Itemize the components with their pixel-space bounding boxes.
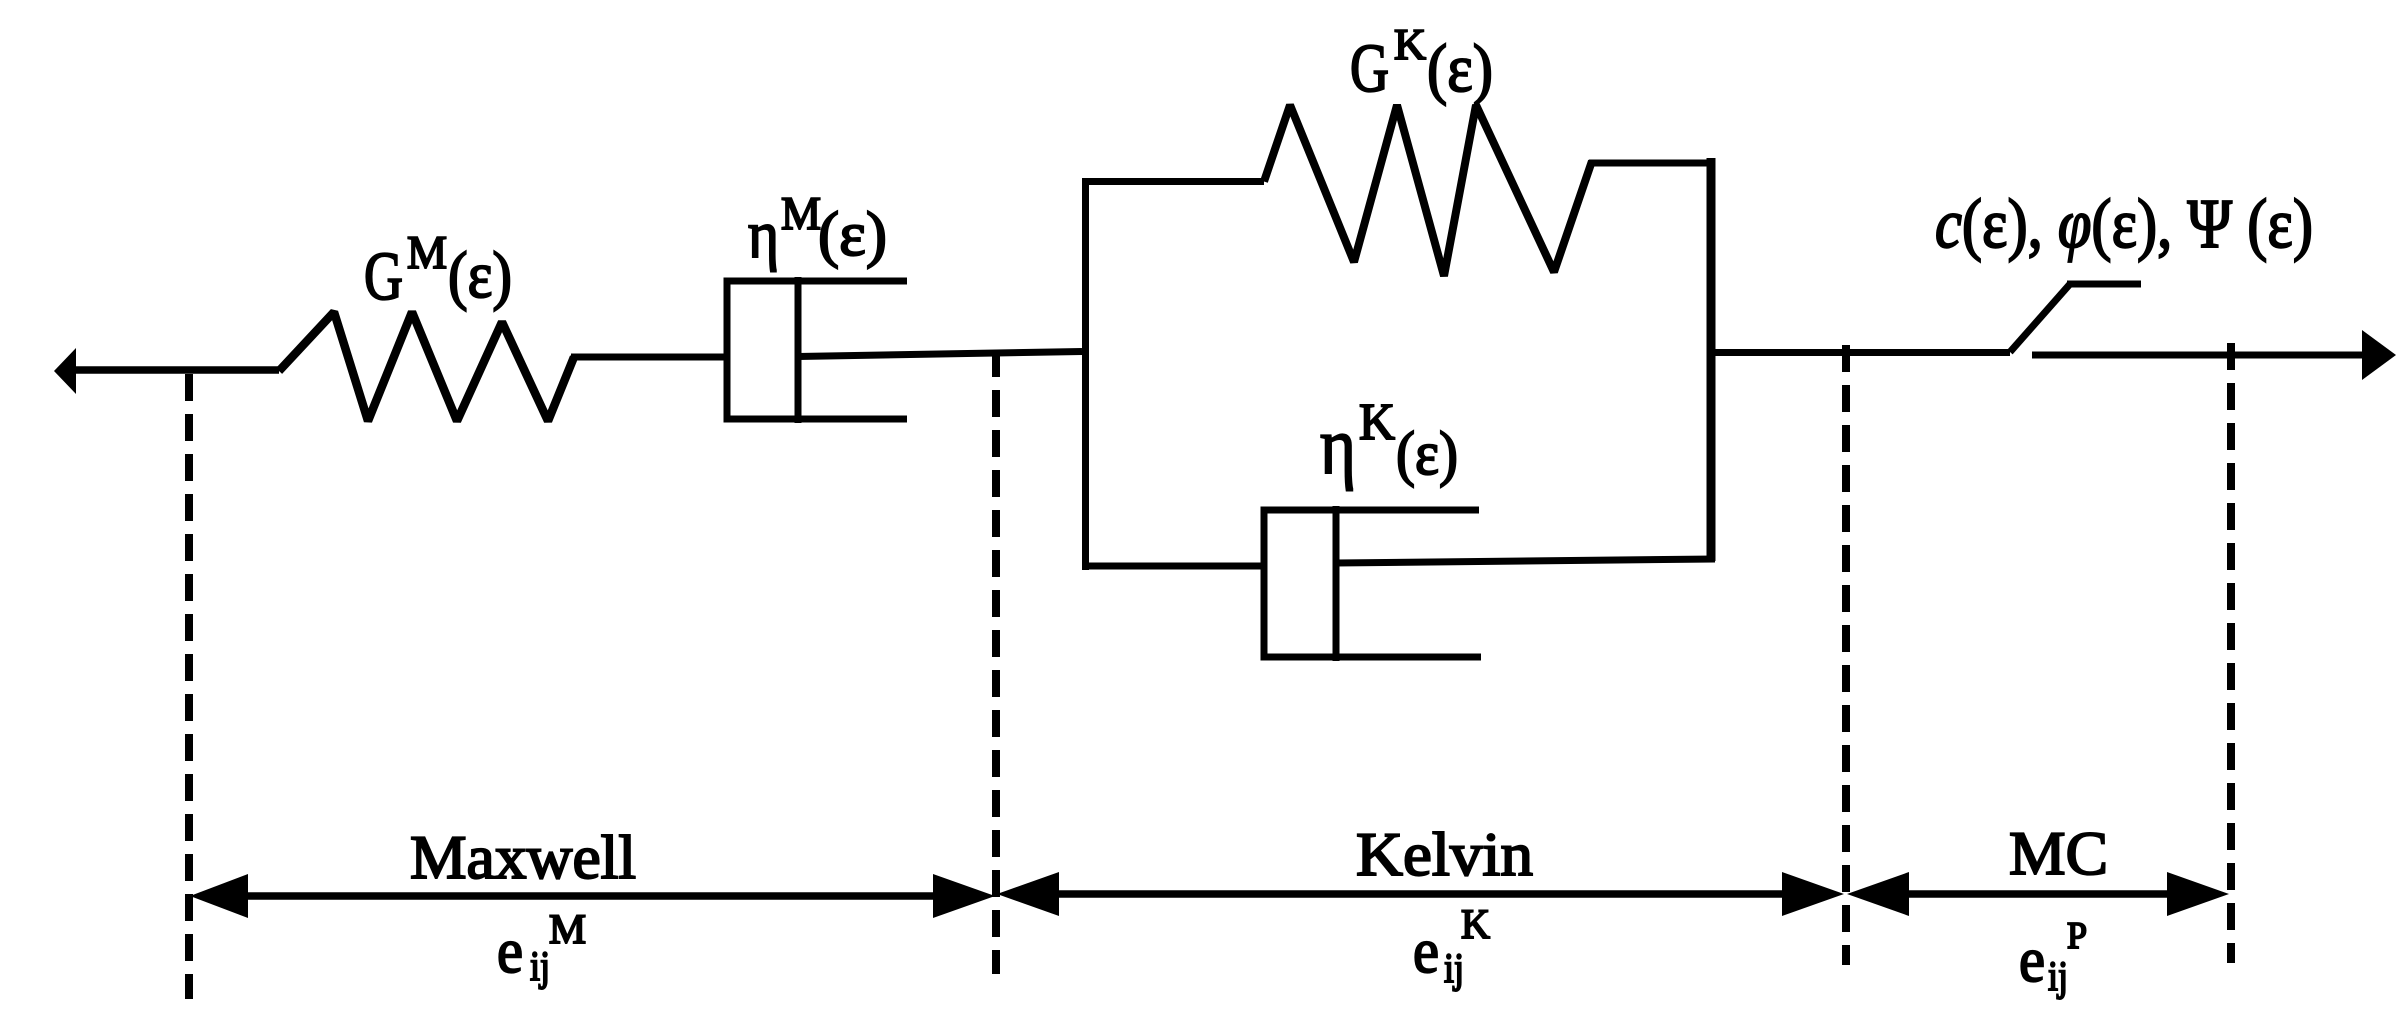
svg-text:e: e	[497, 915, 523, 986]
svg-text:M: M	[549, 907, 586, 953]
svg-text:e: e	[1413, 915, 1439, 986]
svg-text:η: η	[748, 196, 779, 272]
svg-text:Kelvin: Kelvin	[1356, 821, 1533, 889]
svg-text:(ε): (ε)	[818, 199, 887, 269]
svg-text:(ε): (ε)	[448, 239, 512, 312]
svg-text:e: e	[2019, 924, 2045, 995]
svg-text:M: M	[407, 227, 447, 279]
svg-text:K: K	[1461, 902, 1490, 948]
svg-text:Maxwell: Maxwell	[410, 824, 636, 892]
svg-text:M: M	[781, 188, 821, 240]
svg-text:G: G	[1350, 30, 1389, 106]
svg-text:η: η	[1320, 400, 1356, 491]
svg-text:K: K	[1394, 20, 1426, 69]
svg-text:c(ε), φ(ε), Ψ (ε): c(ε), φ(ε), Ψ (ε)	[1935, 186, 2313, 263]
svg-text:ij: ij	[530, 944, 550, 990]
svg-text:P: P	[2067, 915, 2087, 957]
svg-text:ij: ij	[2048, 954, 2068, 1000]
svg-text:(ε): (ε)	[1396, 420, 1458, 488]
svg-text:(ε): (ε)	[1427, 30, 1493, 106]
svg-text:MC: MC	[2009, 820, 2108, 888]
svg-text:ij: ij	[1444, 946, 1464, 992]
svg-text:G: G	[364, 238, 403, 314]
svg-text:K: K	[1359, 394, 1395, 451]
